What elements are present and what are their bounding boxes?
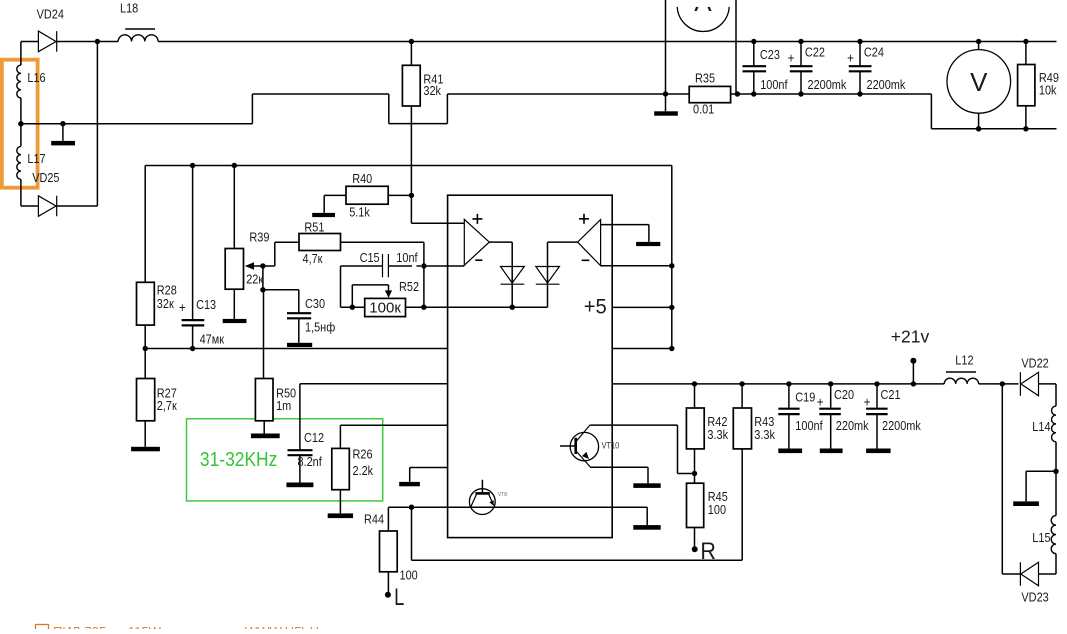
svg-text:3.3k: 3.3k (707, 427, 729, 442)
svg-text:+: + (817, 393, 824, 409)
svg-text:2200mk: 2200mk (867, 77, 907, 92)
svg-text:10k: 10k (1039, 83, 1058, 98)
svg-text:L12: L12 (955, 352, 974, 367)
svg-text:+21v: +21v (891, 326, 930, 346)
svg-text:C19: C19 (795, 390, 815, 405)
svg-text:3.3k: 3.3k (754, 427, 776, 442)
svg-text:5.1k: 5.1k (349, 205, 371, 220)
svg-text:C20: C20 (834, 387, 854, 402)
svg-text:R40: R40 (352, 171, 372, 186)
svg-text:WWW.НГЬН: WWW.НГЬН (245, 624, 319, 629)
svg-text:VD23: VD23 (1021, 589, 1049, 604)
svg-text:VD25: VD25 (32, 170, 60, 185)
svg-text:100к: 100к (369, 300, 401, 317)
svg-text:C13: C13 (196, 297, 216, 312)
svg-text:220mk: 220mk (836, 418, 870, 433)
svg-text:2200mk: 2200mk (882, 418, 922, 433)
svg-text:100nf: 100nf (760, 77, 788, 92)
svg-text:L15: L15 (1032, 530, 1051, 545)
svg-text:22к: 22к (246, 271, 264, 286)
svg-text:100: 100 (400, 567, 419, 582)
svg-text:C30: C30 (305, 296, 325, 311)
svg-text:+: + (847, 49, 854, 65)
svg-text:32к: 32к (157, 296, 175, 311)
svg-text:R: R (700, 537, 716, 565)
svg-text:L14: L14 (1032, 419, 1051, 434)
svg-text:VT8: VT8 (498, 492, 507, 498)
svg-text:1,5нф: 1,5нф (305, 320, 335, 335)
svg-text:32k: 32k (423, 83, 442, 98)
svg-text:C12: C12 (304, 430, 324, 445)
svg-text:VT10: VT10 (602, 441, 620, 451)
svg-text:2,7к: 2,7к (157, 398, 178, 413)
svg-text:L: L (394, 582, 404, 610)
svg-text:C24: C24 (864, 44, 884, 59)
svg-text:10nf: 10nf (396, 250, 418, 265)
svg-text:R44: R44 (364, 512, 384, 527)
svg-text:ПИЛ-705 на 115W: ПИЛ-705 на 115W (53, 624, 162, 629)
svg-text:100: 100 (708, 502, 727, 517)
svg-text:R52: R52 (399, 279, 419, 294)
svg-text:C22: C22 (805, 44, 825, 59)
svg-text:VD22: VD22 (1021, 355, 1049, 370)
svg-text:L16: L16 (27, 70, 46, 85)
svg-text:L17: L17 (27, 151, 46, 166)
svg-text:+: + (864, 393, 871, 409)
svg-text:2.2k: 2.2k (353, 463, 375, 478)
svg-text:1m: 1m (276, 398, 291, 413)
svg-text:V: V (970, 67, 988, 97)
svg-text:31-32KHz: 31-32KHz (200, 449, 277, 472)
svg-text:R26: R26 (353, 446, 373, 461)
svg-text:VD24: VD24 (37, 7, 65, 22)
svg-text:8.2nf: 8.2nf (298, 454, 323, 469)
svg-text:R51: R51 (304, 220, 324, 235)
svg-text:R39: R39 (249, 229, 269, 244)
svg-text:R35: R35 (695, 71, 715, 86)
svg-text:47мк: 47мк (200, 331, 225, 346)
svg-text:C21: C21 (881, 387, 901, 402)
svg-text:C15: C15 (360, 250, 380, 265)
svg-text:C23: C23 (760, 47, 780, 62)
svg-text:L18: L18 (120, 1, 139, 16)
svg-text:100nf: 100nf (795, 418, 823, 433)
svg-text:0.01: 0.01 (693, 102, 715, 117)
svg-text:+: + (788, 49, 795, 65)
svg-text:4,7к: 4,7к (303, 251, 324, 266)
svg-text:2200mk: 2200mk (808, 77, 848, 92)
svg-text:+5: +5 (584, 295, 607, 319)
svg-text:+: + (179, 299, 186, 315)
